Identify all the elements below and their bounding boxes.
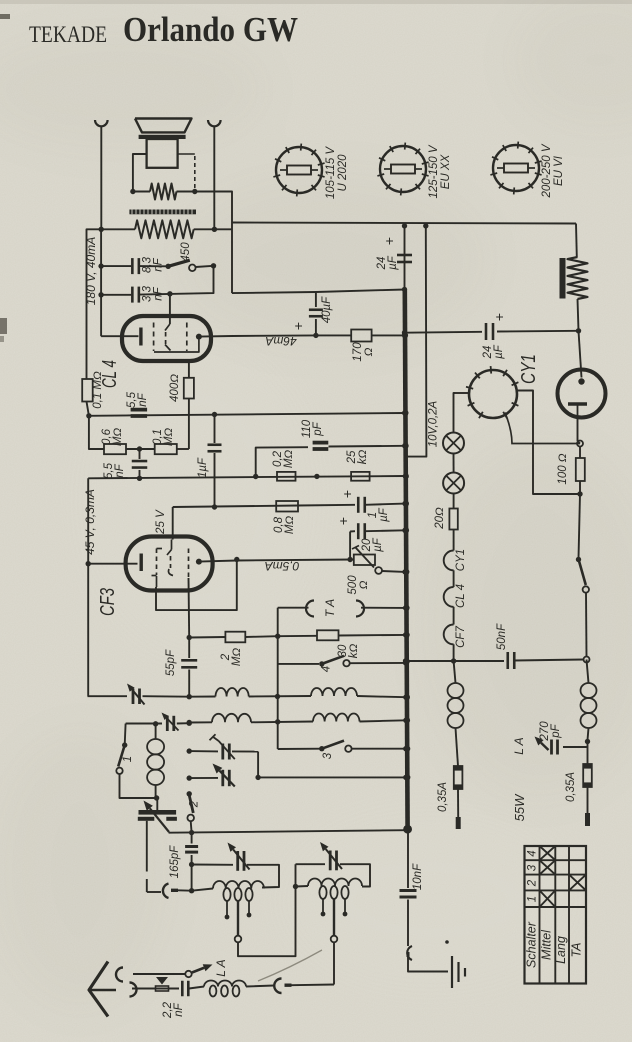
wire cap to switch: [139, 265, 168, 267]
switch 450 contact: [189, 265, 196, 272]
wire frame1 top: [192, 864, 233, 866]
junction CF3 cathode: [86, 561, 91, 566]
valve CL4 grid 1: [153, 323, 155, 352]
valve CL4 grid 3: [186, 323, 188, 352]
valve CF3 grid 3: [188, 549, 190, 579]
label 25 kOhm: [346, 450, 369, 465]
wire fuse right down: [587, 787, 589, 813]
svg-text:µF: µF: [493, 344, 505, 359]
resistor 20 Ohm: [449, 509, 457, 530]
connector TA right: [356, 601, 364, 617]
junction 450 node: [211, 263, 216, 268]
wire switch to node: [585, 593, 588, 657]
capacitor 5,5nF bridge: [131, 408, 148, 412]
trimmer frame2: [329, 851, 332, 871]
wire smoothing row: [405, 331, 483, 334]
wire coil1 tap link: [238, 887, 296, 957]
mains pin right: [585, 813, 590, 826]
gang capacitor top plate: [139, 810, 177, 815]
junction trim row f2: [187, 775, 192, 780]
LA tap contact: [185, 971, 191, 977]
wire TA to bus: [361, 607, 406, 609]
wire band node drop: [277, 636, 279, 749]
junction frame2 left: [293, 884, 298, 889]
svg-text:55W: 55W: [512, 793, 527, 821]
valve CF3 cathode: [88, 563, 137, 565]
wire arrester row: [133, 973, 185, 975]
wire heater return: [406, 226, 426, 457]
wire right terminal down: [213, 127, 215, 230]
junction voice coil left: [130, 189, 135, 194]
svg-text:nF: nF: [173, 1002, 185, 1016]
resistor 400 Ohm: [188, 362, 190, 378]
junction dropper node: [576, 328, 581, 333]
capacitor 1uF second: [298, 504, 355, 507]
valve CF3 envelope: [126, 537, 213, 591]
ground symbol: [451, 956, 453, 988]
junction trim row f1: [187, 748, 192, 753]
wire grid1 drop: [188, 578, 191, 638]
svg-text:1: 1: [527, 896, 539, 902]
signal lamp 1: [443, 433, 464, 454]
wire frame2 right: [340, 864, 370, 886]
wire screen feed row: [173, 506, 298, 508]
wire switch to node: [196, 266, 214, 267]
junction primary right: [212, 227, 217, 232]
ant coil2 tap contact: [331, 936, 338, 943]
wire 20R down: [453, 530, 455, 551]
switch mains lever: [579, 561, 586, 585]
ant coil1 tap contact: [235, 936, 242, 943]
svg-text:U 2020: U 2020: [337, 154, 349, 192]
trimmer frame1: [236, 851, 239, 871]
wire trimmer to line: [143, 695, 190, 698]
svg-text:200-250 V: 200-250 V: [541, 143, 553, 198]
wire padders to bus: [258, 776, 406, 778]
table X Mittel-1: [540, 890, 556, 907]
wire row2 mid: [251, 721, 313, 724]
svg-text:MΩ: MΩ: [231, 648, 243, 667]
inductor row2 left: [189, 721, 212, 723]
wire CF3 inner frame: [156, 560, 237, 611]
table X TA-2: [569, 875, 586, 891]
barretter option U2020: [276, 147, 322, 193]
resistor 100 Ohm: [579, 447, 581, 459]
junction 1uF2 bus: [402, 501, 407, 506]
heater chain CF7 bump: [444, 625, 454, 645]
connector antenna right arc: [274, 979, 281, 994]
svg-text:+: +: [491, 313, 507, 321]
resistor 0,6 MOhm: [104, 444, 126, 454]
junction osc coil bottom: [154, 795, 159, 800]
wire lamp link: [453, 454, 455, 473]
svg-text:nF: nF: [137, 392, 149, 406]
trimmer padder-1: [189, 750, 218, 752]
wire long band row: [169, 830, 406, 833]
junction 20uF bus: [402, 528, 407, 533]
svg-text:0,5mA: 0,5mA: [265, 559, 300, 573]
capacitor 24uF right: [485, 323, 488, 340]
junction switch3 bus: [403, 746, 408, 751]
svg-text:nF: nF: [153, 257, 165, 271]
valve CY1 envelope: [558, 370, 606, 418]
junction CL4 grid tap: [167, 291, 172, 296]
switch mains pivot: [576, 557, 581, 562]
resistor 0,1 MOhm grid leak: [82, 379, 93, 402]
inductor mains choke left: [454, 661, 456, 683]
svg-text:10nF: 10nF: [412, 863, 424, 890]
junction padders bus: [403, 775, 408, 780]
switch 3 lever: [322, 741, 344, 749]
switch 1 pivot: [122, 742, 127, 747]
barretter option EU XX: [380, 146, 426, 192]
svg-text:0,1 MΩ: 0,1 MΩ: [92, 371, 104, 409]
svg-text:450: 450: [180, 242, 192, 262]
junction switch2 node: [189, 830, 194, 835]
valve CF3 grid 2: [171, 540, 173, 550]
potentiometer 500 Ohm: [354, 555, 375, 566]
svg-text:3: 3: [527, 864, 539, 871]
wire socket left stub: [455, 392, 469, 394]
valve CL4 cathode: [101, 335, 138, 337]
node CY1 cathode: [577, 441, 583, 447]
chassis bus: [405, 290, 408, 830]
inductor row2 right: [313, 714, 360, 722]
svg-text:L A: L A: [214, 959, 228, 976]
resistor mains dropper: [568, 257, 588, 299]
wire trimmer osc: [177, 722, 189, 724]
transformer core bar: [129, 210, 196, 215]
svg-text:2: 2: [527, 879, 539, 887]
junction row2 bus: [403, 718, 408, 723]
wire frame2 top: [296, 863, 326, 865]
inductor ant coil2 humps: [296, 885, 309, 888]
junction primary left: [99, 227, 104, 232]
resistor 25 kOhm: [351, 472, 370, 481]
svg-text:T A: T A: [323, 599, 337, 617]
junction mains heater tap: [423, 223, 428, 228]
svg-text:L A: L A: [512, 737, 526, 754]
wire 10nF down: [407, 900, 409, 947]
antenna symbol: [89, 962, 108, 1017]
svg-text:MΩ: MΩ: [112, 428, 124, 447]
wire frame1 right: [247, 865, 279, 888]
wire 50nF row: [406, 660, 505, 662]
junction main line row1: [187, 694, 192, 699]
wire 3,3nF to node: [139, 266, 214, 295]
svg-text:10V,0,2A: 10V,0,2A: [428, 400, 440, 447]
svg-text:20Ω: 20Ω: [434, 507, 446, 530]
label 0,2 MOhm: [272, 450, 295, 469]
wire hv feed: [232, 290, 405, 294]
wire anode row: [232, 334, 316, 337]
svg-text:45 V; 0,3mA: 45 V; 0,3mA: [83, 489, 97, 555]
inductor mains choke right: [587, 660, 589, 684]
inductor ant coil2 loops: [319, 886, 348, 899]
mains pin left: [456, 817, 461, 829]
gang capacitor arrow: [150, 808, 169, 832]
resistor 170 Ohm: [316, 334, 351, 336]
svg-text:pF: pF: [312, 421, 324, 436]
wire TA riser: [277, 608, 279, 637]
junction mains top bus: [403, 225, 405, 227]
svg-text:100 Ω: 100 Ω: [557, 453, 569, 484]
junction row1 bus: [403, 695, 408, 700]
svg-text:1: 1: [122, 756, 134, 762]
spark gap arrester: [156, 977, 168, 985]
junction screen row left cap: [137, 476, 142, 481]
junction 0,6M right: [137, 446, 142, 451]
junction 30k bus: [403, 632, 408, 637]
svg-text:+: +: [339, 490, 355, 498]
switch 3 contact: [345, 746, 351, 752]
valve CF3 anode: [196, 559, 202, 565]
junction 100 Ohm bottom: [577, 491, 582, 496]
valve CL4 anode: [196, 334, 202, 340]
speaker terminal hook right: [208, 120, 221, 126]
junction 110pF bus: [402, 443, 407, 448]
capacitor 5,5nF second: [139, 449, 141, 459]
junction anode row bus: [402, 333, 407, 338]
switch 2 contact: [187, 815, 194, 822]
junction 3,3nF left: [98, 292, 103, 297]
svg-text:4: 4: [527, 850, 539, 856]
wire fuse left down: [457, 789, 459, 817]
junction screen feed 1uF: [212, 504, 217, 509]
junction 8,3nF left: [98, 263, 103, 268]
loudspeaker voice-coil frame: [147, 139, 178, 168]
svg-text:MΩ: MΩ: [284, 516, 296, 535]
wire heater seg1: [453, 570, 455, 587]
label 500 Ohm: [347, 575, 370, 595]
svg-text:2: 2: [189, 800, 201, 808]
wire osc top: [126, 723, 162, 725]
wire 3,3nF row: [101, 294, 131, 296]
wire 180V rail left: [87, 229, 102, 379]
wire left terminal down: [100, 127, 102, 230]
label 2 MOhm: [220, 648, 243, 667]
junction voice coil right: [192, 189, 197, 194]
capacitor 10nF: [400, 889, 417, 892]
wire socket right stub: [517, 391, 580, 495]
wire arc to line: [178, 889, 192, 891]
resistor 0,8 MOhm: [276, 501, 298, 512]
svg-text:Lang: Lang: [554, 936, 568, 964]
label 1uF second: [367, 507, 390, 522]
wire choke to arc: [246, 986, 274, 987]
heater chain CY1 bump: [444, 551, 454, 571]
capacitor 50nF: [506, 652, 509, 669]
wire voice coil right lead (dashed): [178, 153, 195, 155]
resistor 0,2 MOhm: [277, 472, 296, 481]
wire switch4 to bus: [350, 662, 406, 664]
bus junction dots: [402, 332, 408, 338]
switch 4 contact: [343, 660, 349, 666]
svg-text:400Ω: 400Ω: [169, 374, 181, 402]
wire CY1 anode lead: [579, 331, 582, 378]
antenna coupling arcs: [116, 968, 123, 982]
svg-text:MΩ: MΩ: [283, 450, 295, 469]
label 8,3nF: [142, 256, 165, 273]
label 5,5nF lower: [103, 462, 126, 479]
svg-text:125-150 V: 125-150 V: [428, 144, 440, 198]
svg-text:+: +: [381, 237, 397, 245]
svg-text:1µF: 1µF: [197, 457, 209, 478]
label 5,5nF upper: [126, 391, 149, 408]
svg-text:105-115 V: 105-115 V: [325, 146, 337, 200]
LA arrow right: [541, 743, 549, 750]
wire 10nF drop: [407, 830, 409, 889]
valve CF3 grid 1: [157, 548, 163, 550]
capacitor 110pF bridge: [313, 441, 329, 445]
svg-text:+: +: [335, 517, 351, 525]
svg-text:4: 4: [321, 666, 333, 672]
junction osc line: [187, 721, 192, 726]
switch 4 pivot: [319, 661, 324, 666]
capacitor 20uF: [350, 530, 355, 532]
junction hv feed bus: [402, 287, 407, 292]
capacitor 165pF: [191, 833, 193, 844]
trimmer row1-left arrow: [132, 690, 144, 705]
wire lamps riser: [454, 393, 456, 433]
junction 0,2M right: [314, 474, 319, 479]
svg-text:CL 4: CL 4: [455, 584, 467, 608]
loudspeaker cone: [135, 119, 192, 133]
capacitor 2,2nF: [181, 981, 184, 997]
label 170 Ohm: [352, 342, 375, 362]
inductor oscillator: [155, 724, 157, 739]
junction heater bottom: [451, 658, 456, 663]
svg-text:25 V: 25 V: [155, 509, 167, 535]
bus end blob: [403, 825, 412, 834]
wire mains top: [232, 223, 576, 224]
svg-text:55pF: 55pF: [165, 649, 177, 676]
junction 2M right: [275, 634, 280, 639]
label 2,2nF: [162, 1001, 185, 1019]
wire padder corner: [257, 752, 259, 778]
svg-text:nF: nF: [114, 463, 126, 477]
junction cathode row left: [86, 413, 91, 418]
svg-text:Orlando GW: Orlando GW: [123, 10, 298, 49]
junction 1uF tap: [212, 412, 217, 417]
junction screen row corner: [253, 474, 258, 479]
wire 0,6M lead: [89, 416, 104, 449]
valve CY1 anode dot: [578, 378, 584, 384]
valve CY1 cathode: [568, 402, 587, 406]
capacitor 55pF: [188, 638, 190, 659]
capacitor 40uF: [315, 319, 317, 335]
svg-text:CY1: CY1: [455, 549, 467, 571]
pencil sweep mark: [258, 950, 322, 981]
inductor ant coil1 humps: [192, 889, 213, 891]
label 20uF: [361, 537, 384, 552]
junction anode-frame: [234, 557, 239, 562]
junction TA bus: [403, 605, 408, 610]
svg-text:EU XX: EU XX: [440, 153, 452, 189]
ant coil2 tap stubs: [322, 899, 324, 912]
svg-text:EU VI: EU VI: [553, 155, 565, 186]
switch 2 pivot: [187, 791, 192, 796]
svg-text:MΩ: MΩ: [163, 428, 175, 447]
label 0,8 MOhm: [273, 516, 296, 535]
trimmer osc arrow: [167, 718, 179, 731]
switch 3 wire: [278, 748, 322, 750]
junction frame1 top: [189, 862, 194, 867]
junction bus top: [402, 223, 407, 228]
svg-text:0,35A: 0,35A: [437, 782, 449, 812]
svg-text:180 V, 40mA: 180 V, 40mA: [84, 237, 98, 305]
bus thin top: [404, 226, 406, 290]
barretter socket: [469, 370, 517, 418]
fuse 0,35A right: [583, 764, 592, 787]
label 24uF right: [482, 344, 505, 359]
gang capacitor bottom plates: [138, 817, 155, 821]
label 3,3nF: [142, 285, 165, 302]
svg-text:CY1: CY1: [518, 354, 540, 384]
resistor 0,1 MOhm second: [155, 444, 177, 454]
switch mains contact: [583, 586, 589, 592]
svg-text:Ω: Ω: [358, 580, 370, 589]
junction 500 bus: [402, 569, 407, 574]
fuse 0,35A left: [454, 766, 463, 789]
junction 50nF bus: [403, 658, 408, 663]
wire CL4 grid entry: [169, 294, 171, 324]
svg-text:kΩ: kΩ: [357, 450, 369, 465]
LA arrow: [192, 968, 204, 973]
wire heater seg3: [453, 644, 455, 661]
wire switch3 to bus: [352, 748, 406, 750]
svg-text:Schalter: Schalter: [525, 921, 539, 968]
svg-text:Ω: Ω: [363, 347, 375, 356]
svg-text:pF: pF: [550, 723, 562, 738]
connector ground arc: [407, 946, 412, 960]
svg-text:Mittel: Mittel: [540, 929, 554, 960]
wire CF3 anode row: [199, 561, 237, 562]
wire heater seg2: [453, 607, 455, 625]
signal lamp 2: [443, 473, 464, 494]
capacitor 8,3nF: [131, 258, 134, 274]
svg-text:0,35A: 0,35A: [565, 772, 577, 802]
resistor output transformer primary: [101, 228, 135, 230]
wire to ground: [408, 957, 448, 972]
speaker terminal hook left: [95, 120, 108, 126]
svg-text:TA: TA: [570, 942, 584, 957]
wire coil to gang: [156, 798, 158, 810]
wire left rail to CF3: [87, 478, 89, 696]
junction anode row 40uF: [313, 333, 318, 338]
dropper slider bar: [560, 258, 566, 299]
label 30 kOhm: [337, 644, 360, 659]
valve CL4 envelope: [122, 316, 211, 361]
svg-text:µF: µF: [387, 255, 399, 270]
wire gang down: [146, 821, 148, 872]
switch 450 pivot: [166, 264, 171, 269]
resistor 2 MOhm: [189, 636, 225, 639]
wire antenna row: [132, 988, 179, 990]
svg-text:40µF: 40µF: [321, 296, 333, 323]
wire lamp to 20R: [453, 494, 455, 509]
wire switch mains riser: [579, 494, 581, 558]
capacitor 24uF left: [397, 254, 412, 257]
wire 110pF branch: [256, 447, 308, 476]
wire 50nF to node: [515, 660, 584, 661]
resistor 30 kOhm: [278, 635, 317, 637]
wire left rail upper: [100, 229, 102, 336]
switch 4 lever: [322, 656, 344, 664]
switch 450 lever: [168, 260, 190, 266]
junction row1 mid: [275, 694, 280, 699]
capacitor 1uF: [214, 415, 216, 444]
